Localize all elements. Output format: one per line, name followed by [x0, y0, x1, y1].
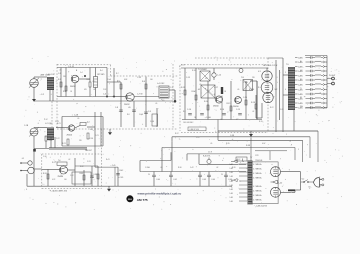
svg-text:2ND DET: 2ND DET [85, 150, 92, 152]
svg-text:C-43: C-43 [202, 179, 206, 181]
svg-text:C-15: C-15 [186, 77, 190, 79]
svg-text:B: B [214, 94, 215, 96]
svg-text:2N410: 2N410 [213, 106, 219, 108]
svg-text:1-48: 1-48 [230, 201, 233, 203]
svg-text:T-5: T-5 [286, 64, 289, 66]
svg-text:J-1: J-1 [22, 158, 25, 160]
svg-text:1-485: 1-485 [298, 84, 303, 86]
svg-text:L-40: L-40 [279, 182, 283, 184]
svg-text:T-6: T-6 [58, 160, 60, 162]
svg-text:R-8: R-8 [127, 114, 130, 116]
svg-text:P-1 AUDIO AMPL 2ND: P-1 AUDIO AMPL 2ND [50, 190, 68, 193]
svg-text:2: 2 [290, 141, 291, 143]
svg-text:+: + [336, 79, 337, 81]
svg-text:220: 220 [252, 77, 255, 79]
svg-text:C-9: C-9 [148, 111, 151, 113]
svg-text:1-485 41-4753: 1-485 41-4753 [256, 205, 267, 207]
svg-text:R-6: R-6 [142, 81, 145, 83]
svg-text:1-48: 1-48 [230, 193, 233, 195]
svg-text:R-32: R-32 [80, 166, 84, 168]
svg-text:.05: .05 [199, 84, 201, 86]
svg-text:R-3: R-3 [87, 79, 90, 81]
svg-text:www.printfix-me/dlipix.t.spb.r: www.printfix-me/dlipix.t.spb.ru [138, 192, 182, 196]
svg-text:4.7 MEG A: 4.7 MEG A [253, 177, 262, 180]
svg-text:.05: .05 [198, 89, 201, 91]
svg-text:OSC-456 SEC: OSC-456 SEC [183, 122, 194, 124]
svg-text:4.7 MEG A: 4.7 MEG A [253, 190, 262, 193]
svg-text:C-42: C-42 [190, 167, 194, 169]
svg-text:R-22: R-22 [270, 107, 274, 109]
svg-text:R-20: R-20 [49, 140, 53, 142]
svg-text:+: + [204, 174, 205, 176]
svg-text:1-48: 1-48 [230, 189, 233, 191]
svg-text:C-7 58: C-7 58 [137, 94, 142, 96]
svg-text:R-31: R-31 [43, 173, 47, 175]
svg-text:C-37: C-37 [196, 137, 200, 139]
svg-text:T-2 456KC: T-2 456KC [198, 69, 208, 71]
svg-text:3-9: 3-9 [162, 100, 164, 102]
svg-text:+: + [238, 179, 239, 181]
svg-text:C-13: C-13 [181, 65, 185, 67]
svg-text:470: 470 [84, 89, 87, 91]
svg-text:L-4 OSC: L-4 OSC [157, 83, 165, 85]
svg-text:.05: .05 [59, 70, 61, 72]
svg-text:R-23: R-23 [57, 123, 61, 125]
svg-text:C-26: C-26 [280, 109, 284, 111]
svg-text:4: 4 [285, 89, 286, 91]
svg-text:C-21: C-21 [55, 121, 59, 123]
svg-text:1-485: 1-485 [298, 103, 303, 105]
svg-text:R-35: R-35 [226, 143, 230, 145]
svg-text:1-48: 1-48 [230, 185, 233, 187]
svg-text:4.7 MEG A: 4.7 MEG A [253, 168, 262, 171]
svg-text:100: 100 [64, 179, 67, 181]
svg-text:C-39: C-39 [120, 177, 124, 179]
svg-text:1-48: 1-48 [230, 176, 233, 178]
svg-text:C-5: C-5 [93, 81, 96, 83]
svg-text:2N406: 2N406 [58, 176, 64, 178]
svg-text:V-1: V-1 [258, 71, 261, 73]
svg-text:R-42: R-42 [120, 170, 124, 172]
svg-text:2N412: 2N412 [124, 104, 130, 106]
svg-text:2N410: 2N410 [233, 106, 239, 108]
svg-text:L-2 OSC: L-2 OSC [45, 123, 53, 125]
svg-text:R-18: R-18 [251, 102, 255, 104]
svg-text:C-2: C-2 [41, 94, 44, 96]
svg-text:.02: .02 [252, 111, 254, 113]
svg-text:R-4: R-4 [100, 70, 103, 72]
svg-text:R-41: R-41 [106, 159, 110, 161]
svg-text:20: 20 [221, 174, 223, 176]
svg-text:C-14: C-14 [217, 75, 221, 77]
svg-text:R-11: R-11 [181, 87, 185, 89]
svg-text:C-24: C-24 [90, 138, 94, 140]
svg-text:C-20: C-20 [243, 97, 247, 99]
svg-text:S-2: S-2 [302, 178, 305, 180]
svg-text:C-10: C-10 [150, 121, 154, 123]
svg-text:R-19: R-19 [259, 121, 263, 123]
svg-text:R-29: R-29 [52, 162, 56, 164]
svg-text:BL: BL [300, 61, 302, 63]
svg-text:1ST DET: 1ST DET [97, 74, 105, 76]
svg-text:R-2: R-2 [63, 91, 66, 93]
svg-text:.05: .05 [155, 103, 157, 105]
svg-text:R-40 VOL: R-40 VOL [203, 156, 211, 158]
svg-text:C-18: C-18 [74, 114, 78, 116]
svg-text:R-15: R-15 [227, 103, 231, 105]
svg-text:T-7: T-7 [250, 157, 252, 159]
svg-text:+: + [166, 179, 167, 181]
svg-text:1-485: 1-485 [298, 94, 303, 96]
svg-text:LINE UP 456: LINE UP 456 [190, 129, 199, 131]
svg-text:R-17: R-17 [258, 87, 262, 89]
svg-text:R-37: R-37 [175, 133, 179, 135]
svg-text:4.7 MEG A: 4.7 MEG A [253, 172, 262, 175]
svg-text:47: 47 [236, 119, 238, 121]
svg-text:R-10: R-10 [192, 70, 196, 72]
svg-text:C-38: C-38 [230, 135, 234, 137]
svg-text:R-36: R-36 [178, 167, 182, 169]
svg-text:R-5: R-5 [117, 81, 120, 83]
svg-text:20: 20 [148, 174, 150, 176]
svg-text:.01: .01 [93, 89, 95, 91]
svg-text:1-48: 1-48 [230, 164, 233, 166]
svg-text:R-16: R-16 [220, 109, 224, 111]
svg-text:5: 5 [298, 149, 299, 151]
svg-text:3: 3 [285, 72, 286, 74]
svg-text:1-48: 1-48 [230, 172, 233, 174]
svg-text:YL: YL [300, 88, 302, 90]
svg-text:C-44: C-44 [211, 179, 215, 181]
svg-text:R-21: R-21 [62, 143, 66, 145]
svg-text:1-485: 1-485 [298, 66, 303, 68]
svg-text:R-14: R-14 [204, 101, 208, 103]
svg-text:4.7 MEG A: 4.7 MEG A [253, 194, 262, 197]
svg-text:100: 100 [150, 79, 153, 81]
svg-text:.05: .05 [210, 143, 212, 145]
svg-text:L-1 LOOP: L-1 LOOP [46, 74, 56, 76]
svg-text:C-4: C-4 [80, 72, 83, 74]
svg-text:1-485: 1-485 [298, 57, 303, 59]
svg-text:R-33: R-33 [80, 173, 84, 175]
svg-text:220: 220 [79, 140, 82, 142]
svg-text:2N410: 2N410 [67, 135, 73, 137]
svg-text:+ C-45: + C-45 [111, 165, 116, 167]
svg-text:1-48: 1-48 [230, 197, 233, 199]
svg-text:R-39: R-39 [232, 167, 236, 169]
svg-text:C-17: C-17 [214, 87, 218, 89]
svg-text:C-4 .05: C-4 .05 [68, 66, 74, 68]
svg-text:.05: .05 [77, 118, 79, 120]
svg-text:60⁓: 60⁓ [309, 187, 313, 189]
svg-text:.05: .05 [220, 119, 222, 121]
svg-text:C-11: C-11 [170, 87, 173, 89]
svg-text:1-485: 1-485 [298, 75, 303, 77]
svg-text:C-23: C-23 [95, 135, 99, 137]
svg-text:1-48: 1-48 [230, 181, 233, 183]
svg-text:.05: .05 [160, 167, 162, 169]
svg-text:4.7 MEG A: 4.7 MEG A [253, 185, 262, 188]
svg-text:1: 1 [286, 134, 287, 136]
svg-text:C-40: C-40 [156, 179, 160, 181]
svg-text:C-41: C-41 [173, 179, 177, 181]
svg-text:R-1: R-1 [58, 79, 61, 81]
svg-text:TM 45LB: TM 45LB [255, 160, 263, 162]
svg-text:.05: .05 [128, 107, 131, 109]
svg-text:C-32: C-32 [70, 175, 74, 177]
svg-text:4.7 MEG A: 4.7 MEG A [253, 199, 262, 202]
svg-text:C-33: C-33 [93, 174, 97, 176]
svg-text:220: 220 [63, 76, 66, 78]
svg-text:AM 775: AM 775 [137, 198, 148, 202]
svg-text:R-38: R-38 [246, 145, 250, 147]
svg-text:R-9: R-9 [183, 111, 186, 113]
svg-text:C-6: C-6 [103, 94, 106, 96]
svg-text:C-22: C-22 [56, 138, 60, 140]
svg-text:C-19: C-19 [236, 109, 240, 111]
svg-text:IF 456: IF 456 [249, 89, 254, 91]
svg-text:C-16: C-16 [187, 109, 191, 111]
svg-text:P-LIGHT: P-LIGHT [329, 75, 335, 77]
svg-text:4.7 MEG A: 4.7 MEG A [253, 163, 262, 166]
svg-text:C-3: C-3 [58, 73, 61, 75]
svg-text:.02: .02 [216, 167, 218, 169]
svg-text:.02: .02 [68, 159, 70, 161]
svg-text:.05: .05 [237, 89, 239, 91]
svg-text:R-7: R-7 [116, 73, 119, 75]
svg-text:C-31: C-31 [87, 161, 91, 163]
svg-text:C-8: C-8 [115, 107, 118, 109]
